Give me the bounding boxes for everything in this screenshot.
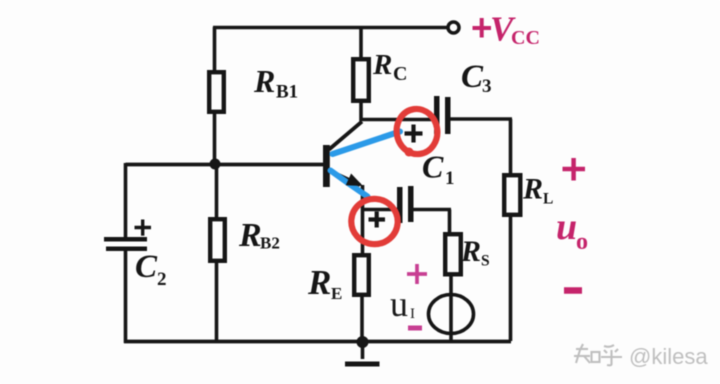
svg-text:@kilesa: @kilesa <box>629 344 708 369</box>
svg-text:u: u <box>390 284 408 324</box>
svg-text:1: 1 <box>445 168 455 189</box>
svg-text:S: S <box>481 253 490 270</box>
svg-text:L: L <box>543 191 553 208</box>
svg-text:CC: CC <box>511 27 540 49</box>
svg-text:C: C <box>461 59 484 95</box>
svg-text:3: 3 <box>482 76 492 97</box>
svg-text:R: R <box>307 263 331 302</box>
svg-text:R: R <box>460 235 481 268</box>
svg-text:o: o <box>576 229 588 255</box>
svg-text:R: R <box>238 217 262 254</box>
svg-text:B2: B2 <box>260 234 280 253</box>
svg-text:R: R <box>522 173 543 206</box>
svg-text:B1: B1 <box>276 82 298 103</box>
svg-text:R: R <box>372 49 392 81</box>
svg-text:C: C <box>422 149 444 185</box>
svg-text:E: E <box>331 284 342 303</box>
svg-text:I: I <box>410 306 415 322</box>
svg-text:2: 2 <box>157 269 167 290</box>
svg-text:u: u <box>556 206 577 248</box>
svg-text:C: C <box>135 249 158 285</box>
svg-text:C: C <box>393 63 407 85</box>
svg-text:R: R <box>253 63 275 99</box>
